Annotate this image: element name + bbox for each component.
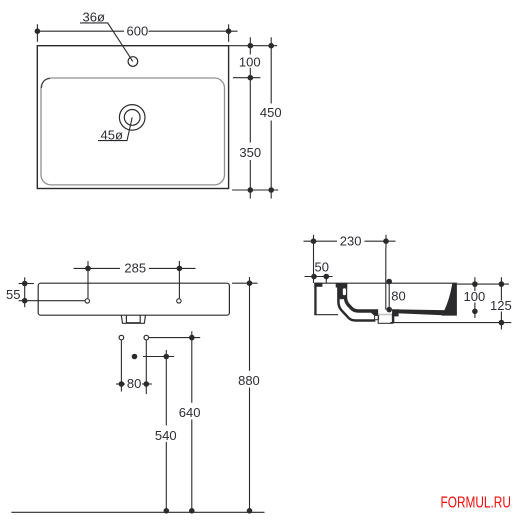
side view: drain flange white square [375, 315, 379, 319]
side view right extension lines [390, 284, 511, 323]
label 36ø with leader [80, 10, 133, 62]
front view lower: left fixing hole [119, 335, 124, 340]
dimension 100 vertical (side view) [464, 277, 486, 318]
dimension 80 vertical (side view) [386, 279, 405, 313]
svg-text:880: 880 [238, 373, 260, 388]
svg-text:80: 80 [391, 289, 405, 304]
dimension 80 horizontal (front view) [116, 341, 152, 395]
label 45ø with leader [98, 117, 132, 142]
dimension 55 vertical [6, 277, 85, 307]
dimension 450 vertical [260, 37, 282, 198]
side view: bowl wall outer band [338, 283, 375, 320]
svg-text:80: 80 [127, 376, 141, 391]
front view: left mounting hole [85, 299, 89, 303]
svg-text:55: 55 [6, 287, 20, 302]
svg-text:FORMUL.RU: FORMUL.RU [441, 493, 511, 511]
dimension 125 vertical (side view) [490, 277, 512, 329]
front view: right mounting hole [177, 299, 181, 303]
front view: drain trapezoid [121, 315, 145, 323]
svg-text:600: 600 [127, 23, 149, 38]
faucet hole 36ø circle [128, 57, 138, 67]
svg-text:450: 450 [260, 105, 282, 120]
dimension 640 vertical [149, 331, 200, 512]
svg-text:230: 230 [340, 233, 362, 248]
top view: basin outer rectangle [37, 46, 228, 189]
side view: bowl bottom right band [397, 309, 450, 315]
svg-text:285: 285 [124, 261, 146, 276]
front view lower: right fixing hole [144, 335, 149, 340]
dimension 880 vertical [232, 277, 260, 512]
dimension 350 vertical [239, 86, 261, 199]
side view: overflow notch (white) [343, 288, 346, 295]
top view: inner basin rounded rectangle [41, 78, 225, 185]
svg-text:50: 50 [315, 260, 329, 275]
side view: bowl wall inner band [336, 283, 373, 311]
svg-text:100: 100 [464, 289, 486, 304]
side view: profile top rim line [314, 282, 457, 284]
side view: right wall [442, 283, 457, 315]
drain hole 45ø concentric circles [119, 105, 145, 131]
dimension 600 horizontal [35, 23, 238, 42]
side view: drain box [378, 309, 398, 323]
dimension 100 vertical [239, 37, 261, 86]
dimension 285 horizontal [74, 261, 196, 299]
dimension 50 horizontal [305, 260, 333, 284]
svg-text:100: 100 [239, 54, 261, 69]
watermark FORMUL.RU [441, 493, 511, 511]
svg-text:640: 640 [179, 405, 201, 420]
floor line [11, 508, 264, 514]
side view: left mounting block [314, 283, 338, 315]
svg-text:540: 540 [155, 428, 177, 443]
svg-text:125: 125 [490, 298, 512, 313]
front view: basin rectangle [38, 283, 229, 315]
top view right extension lines [229, 46, 279, 190]
svg-text:36ø: 36ø [83, 10, 105, 25]
side view: drain left step [371, 309, 378, 315]
front view lower: drain point filled dot [132, 354, 138, 360]
dimension 230 horizontal [304, 233, 396, 309]
dimension 540 vertical [143, 350, 177, 512]
svg-text:350: 350 [239, 145, 261, 160]
